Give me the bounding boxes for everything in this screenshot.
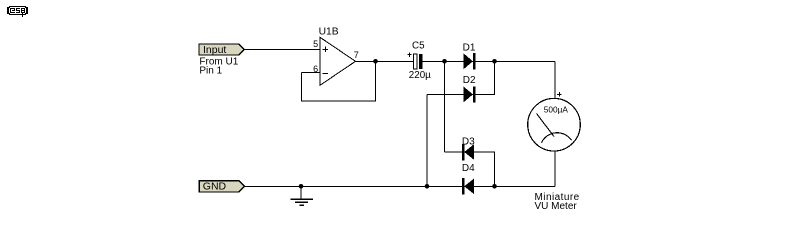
svg-text:D3: D3 [462,137,475,148]
svg-text:D1: D1 [463,42,476,53]
svg-text:VU Meter: VU Meter [535,201,578,212]
svg-text:500µA: 500µA [544,105,569,115]
svg-text:D2: D2 [463,75,476,86]
svg-text:Pin 1: Pin 1 [199,66,222,77]
svg-text:7: 7 [354,50,359,60]
svg-text:220µ: 220µ [409,70,431,81]
svg-text:5: 5 [313,39,318,49]
svg-text:GND: GND [203,181,227,193]
svg-text:C5: C5 [412,41,425,52]
svg-text:6: 6 [313,64,318,74]
svg-text:Input: Input [203,44,226,56]
svg-text:D4: D4 [462,163,475,174]
svg-text:U1B: U1B [319,27,339,38]
